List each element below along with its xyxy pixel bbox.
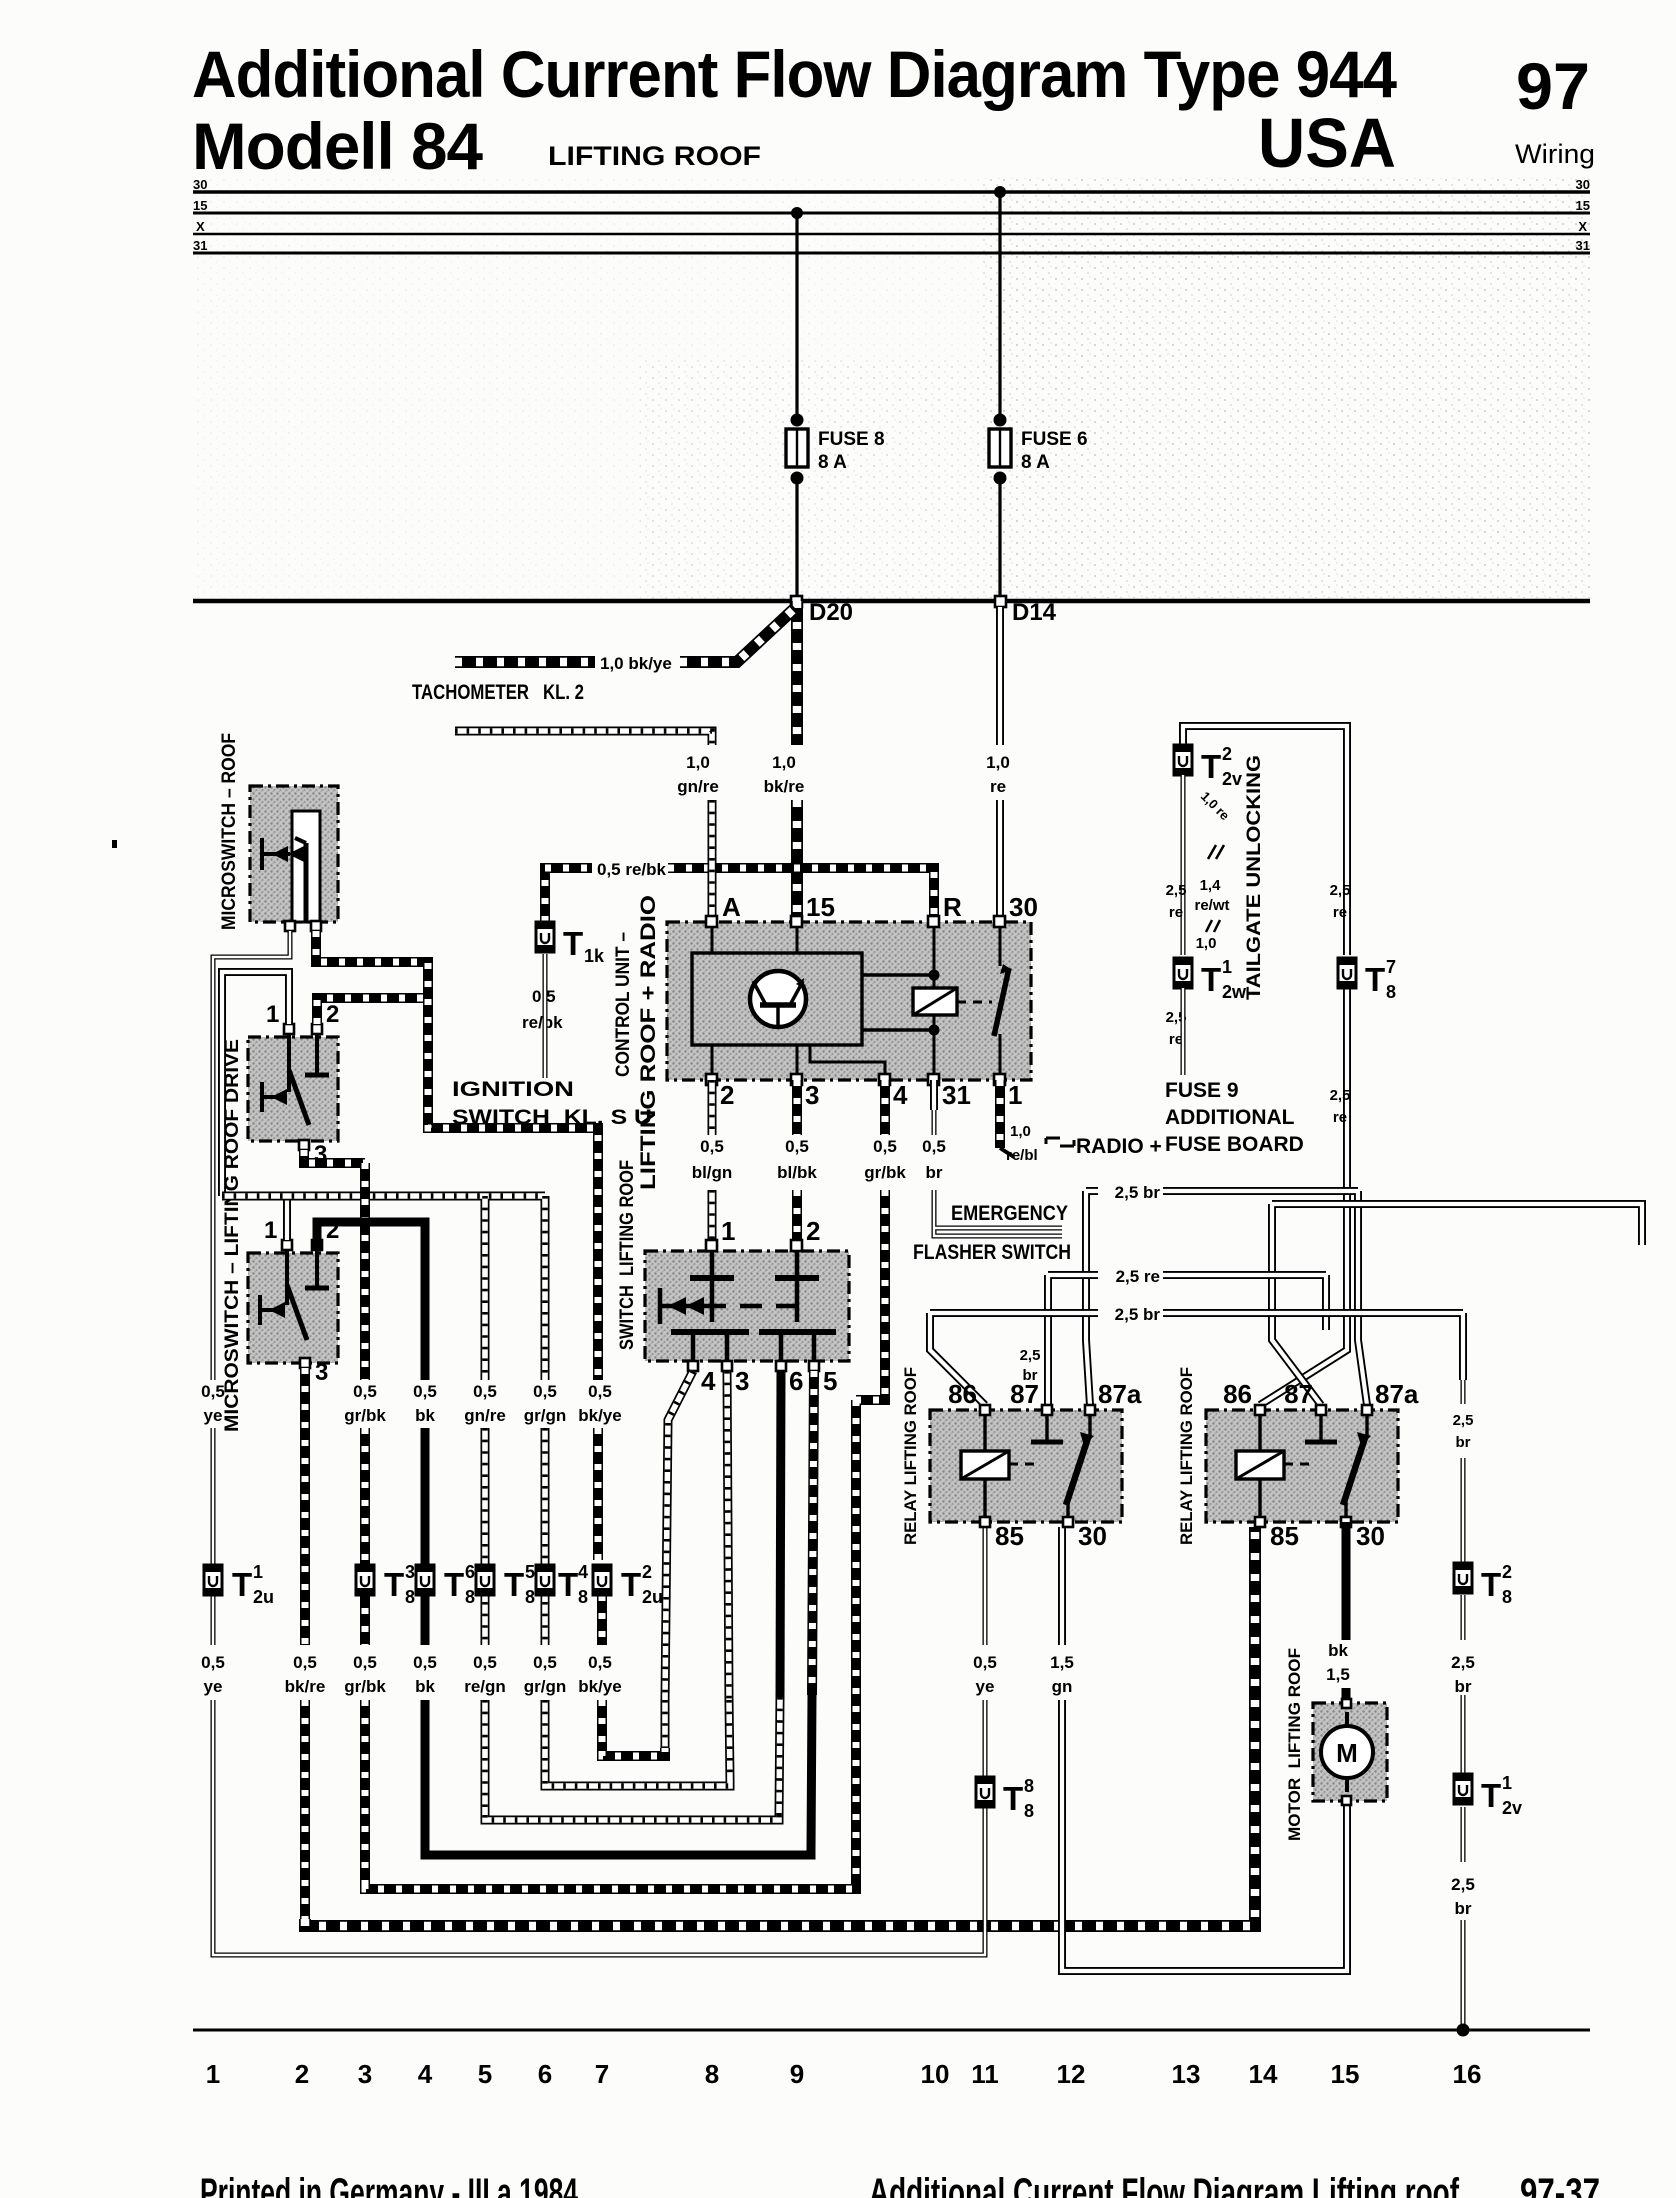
svg-text:Printed in Germany - III a 198: Printed in Germany - III a 1984: [200, 2171, 578, 2198]
svg-text:bk/ye: bk/ye: [578, 1406, 621, 1425]
svg-text:8: 8: [1502, 1587, 1512, 1607]
svg-text:1,0: 1,0: [772, 753, 796, 772]
svg-text:Wiring: Wiring: [1515, 139, 1595, 169]
svg-text:8: 8: [578, 1587, 588, 1607]
svg-text:ye: ye: [204, 1677, 223, 1696]
svg-text:2: 2: [1222, 744, 1232, 764]
svg-text:3: 3: [358, 2059, 372, 2089]
svg-text:9: 9: [790, 2059, 804, 2089]
svg-text:gr/bk: gr/bk: [344, 1406, 386, 1425]
svg-text:TAILGATE UNLOCKING: TAILGATE UNLOCKING: [1244, 755, 1265, 1000]
svg-text:MICROSWITCH – ROOF: MICROSWITCH – ROOF: [219, 733, 240, 930]
svg-text:1: 1: [1222, 957, 1232, 977]
svg-text:87: 87: [1010, 1379, 1039, 1409]
svg-text:0,5: 0,5: [201, 1382, 225, 1401]
svg-text:bl/gn: bl/gn: [692, 1163, 733, 1182]
svg-text:3: 3: [405, 1562, 415, 1582]
svg-text:re: re: [1333, 904, 1347, 921]
svg-text:15: 15: [1576, 198, 1590, 213]
svg-text:0,5: 0,5: [588, 1653, 612, 1672]
svg-text:8 A: 8 A: [1021, 452, 1050, 473]
svg-text:T: T: [504, 1566, 524, 1603]
svg-text:T: T: [1003, 1780, 1023, 1817]
svg-text:MOTOR LIFTING ROOF: MOTOR LIFTING ROOF: [1285, 1648, 1304, 1841]
svg-text:FUSE 9: FUSE 9: [1165, 1079, 1239, 1102]
svg-text:gr/gn: gr/gn: [524, 1677, 567, 1696]
svg-text:FUSE 8: FUSE 8: [818, 429, 885, 450]
svg-text:0,5: 0,5: [293, 1653, 317, 1672]
svg-text:TACHOMETER KL. 2: TACHOMETER KL. 2: [412, 681, 584, 704]
svg-text:bk/ye: bk/ye: [578, 1677, 621, 1696]
svg-text:EMERGENCY: EMERGENCY: [951, 1202, 1068, 1225]
svg-text:br: br: [1456, 1434, 1471, 1451]
svg-text:1,0: 1,0: [1196, 935, 1217, 952]
svg-text:ye: ye: [204, 1406, 223, 1425]
svg-text:T: T: [558, 1566, 578, 1603]
svg-text:T: T: [621, 1566, 641, 1603]
svg-text:4: 4: [893, 1080, 908, 1110]
svg-text:2,5: 2,5: [1330, 1087, 1351, 1104]
svg-text:re/gn: re/gn: [464, 1677, 506, 1696]
svg-text:86: 86: [948, 1379, 977, 1409]
svg-text:T: T: [563, 925, 583, 962]
svg-text:T: T: [1201, 961, 1221, 998]
svg-text:T: T: [384, 1566, 404, 1603]
svg-text:4: 4: [578, 1562, 588, 1582]
svg-text:2: 2: [642, 1562, 652, 1582]
svg-text:1,0: 1,0: [1010, 1123, 1031, 1140]
svg-text:2u: 2u: [253, 1587, 274, 1607]
svg-text:97-37: 97-37: [1520, 2171, 1600, 2198]
svg-text:1: 1: [266, 1001, 279, 1028]
svg-text:87: 87: [1284, 1379, 1313, 1409]
svg-text:5: 5: [478, 2059, 492, 2089]
svg-text:gr/bk: gr/bk: [344, 1677, 386, 1696]
svg-text:30: 30: [1009, 892, 1038, 922]
svg-text:1,5: 1,5: [1326, 1665, 1350, 1684]
svg-text:8: 8: [525, 1587, 535, 1607]
svg-text:T: T: [1481, 1777, 1501, 1814]
svg-text:30: 30: [1356, 1521, 1385, 1551]
svg-text:0,5 re/bk: 0,5 re/bk: [597, 860, 667, 879]
svg-text:15: 15: [1331, 2059, 1360, 2089]
svg-text:R: R: [943, 892, 962, 922]
svg-text:5: 5: [823, 1366, 837, 1396]
svg-text:T: T: [1365, 961, 1385, 998]
svg-text:1: 1: [1502, 1773, 1512, 1793]
svg-text:2,5: 2,5: [1451, 1653, 1475, 1672]
svg-text:T: T: [1481, 1566, 1501, 1603]
svg-text:gr/gn: gr/gn: [524, 1406, 567, 1425]
svg-text:bk: bk: [415, 1406, 435, 1425]
svg-text:br: br: [1455, 1899, 1472, 1918]
svg-text:0,5: 0,5: [473, 1653, 497, 1672]
svg-text:SWITCH LIFTING ROOF: SWITCH LIFTING ROOF: [617, 1160, 638, 1350]
svg-text:12: 12: [1057, 2059, 1086, 2089]
svg-text:X: X: [1578, 219, 1587, 234]
svg-text:gn: gn: [1052, 1677, 1073, 1696]
svg-text:4: 4: [418, 2059, 433, 2089]
svg-text:8: 8: [1386, 982, 1396, 1002]
svg-text:1,0: 1,0: [686, 753, 710, 772]
svg-text:2u: 2u: [642, 1587, 663, 1607]
svg-text:re/bl: re/bl: [1006, 1147, 1038, 1164]
svg-text:0,5: 0,5: [201, 1653, 225, 1672]
svg-text:bk: bk: [1328, 1641, 1348, 1660]
svg-text:11: 11: [971, 2059, 999, 2089]
svg-text:15: 15: [806, 892, 835, 922]
svg-text:0,5: 0,5: [873, 1137, 897, 1156]
svg-text:2v: 2v: [1222, 769, 1242, 789]
svg-text:1,0: 1,0: [986, 753, 1010, 772]
svg-text:LIFTING ROOF + RADIO: LIFTING ROOF + RADIO: [637, 895, 660, 1190]
svg-text:ye: ye: [976, 1677, 995, 1696]
svg-text:X: X: [196, 219, 205, 234]
svg-text:30: 30: [1576, 177, 1590, 192]
svg-text:97: 97: [1516, 49, 1590, 123]
svg-text:85: 85: [995, 1521, 1024, 1551]
svg-text:bl/bk: bl/bk: [777, 1163, 817, 1182]
svg-text:1: 1: [1008, 1080, 1022, 1110]
svg-text:2: 2: [720, 1080, 734, 1110]
svg-text:br: br: [926, 1163, 943, 1182]
svg-text:6: 6: [538, 2059, 552, 2089]
svg-text:30: 30: [1078, 1521, 1107, 1551]
svg-text:1,4: 1,4: [1200, 877, 1222, 894]
svg-text:15: 15: [193, 198, 207, 213]
svg-text:re: re: [1169, 904, 1183, 921]
svg-text:re: re: [990, 777, 1006, 796]
svg-text:1: 1: [264, 1217, 277, 1244]
svg-text:3: 3: [805, 1080, 819, 1110]
svg-text:87a: 87a: [1098, 1379, 1142, 1409]
svg-text:3: 3: [315, 1359, 328, 1386]
svg-text:8: 8: [405, 1587, 415, 1607]
svg-text:gn/re: gn/re: [677, 777, 719, 796]
svg-text:bk: bk: [415, 1677, 435, 1696]
svg-text:85: 85: [1270, 1521, 1299, 1551]
svg-text:FUSE BOARD: FUSE BOARD: [1165, 1133, 1304, 1156]
svg-text:10: 10: [921, 2059, 950, 2089]
svg-text:USA: USA: [1258, 104, 1396, 182]
svg-text:2,5 br: 2,5 br: [1115, 1305, 1161, 1324]
svg-text:2: 2: [806, 1216, 820, 1246]
svg-text:2w: 2w: [1222, 982, 1247, 1002]
svg-text:16: 16: [1453, 2059, 1482, 2089]
svg-text:0,5: 0,5: [413, 1653, 437, 1672]
svg-text:T: T: [232, 1566, 252, 1603]
svg-text:7: 7: [595, 2059, 609, 2089]
svg-text:8 A: 8 A: [818, 452, 847, 473]
svg-text:gr/bk: gr/bk: [864, 1163, 906, 1182]
svg-text:0,5: 0,5: [353, 1382, 377, 1401]
svg-text:6: 6: [465, 1562, 475, 1582]
svg-text:Modell 84: Modell 84: [192, 109, 483, 183]
svg-text:T: T: [1201, 748, 1221, 785]
svg-text:8: 8: [1024, 1776, 1034, 1796]
svg-text:8: 8: [705, 2059, 719, 2089]
svg-text:Additional Current Flow Diagra: Additional Current Flow Diagram Type 944: [192, 37, 1397, 111]
svg-text:87a: 87a: [1375, 1379, 1419, 1409]
svg-text:1,0 bk/ye: 1,0 bk/ye: [600, 654, 672, 673]
svg-text:1k: 1k: [584, 946, 605, 966]
svg-text:2v: 2v: [1502, 1798, 1522, 1818]
svg-text:0,5: 0,5: [413, 1382, 437, 1401]
svg-text:1: 1: [206, 2059, 220, 2089]
svg-text:LIFTING ROOF: LIFTING ROOF: [548, 141, 761, 171]
svg-text:0,5: 0,5: [588, 1382, 612, 1401]
svg-text:2,5: 2,5: [1453, 1412, 1474, 1429]
svg-text:0,5: 0,5: [353, 1653, 377, 1672]
svg-text:bk/re: bk/re: [285, 1677, 326, 1696]
svg-text:0,5: 0,5: [533, 1382, 557, 1401]
svg-text:86: 86: [1223, 1379, 1252, 1409]
svg-text:2: 2: [295, 2059, 309, 2089]
svg-text:RADIO +: RADIO +: [1076, 1135, 1162, 1158]
svg-text:31: 31: [193, 238, 207, 253]
svg-text:D20: D20: [809, 599, 853, 626]
svg-text:Additional Current Flow Diagra: Additional Current Flow Diagram Lifting …: [869, 2171, 1459, 2198]
svg-text:2,5: 2,5: [1330, 882, 1351, 899]
svg-text:0,5: 0,5: [533, 1653, 557, 1672]
svg-text:re: re: [1333, 1109, 1347, 1126]
svg-text:30: 30: [193, 177, 207, 192]
svg-text:br: br: [1455, 1677, 1472, 1696]
svg-text:2: 2: [326, 1001, 339, 1028]
svg-text:IGNITION: IGNITION: [452, 1078, 574, 1101]
svg-text:bk/re: bk/re: [764, 777, 805, 796]
svg-text:2,5: 2,5: [1451, 1875, 1475, 1894]
svg-text:2,5 re: 2,5 re: [1116, 1267, 1160, 1286]
svg-text:0,5: 0,5: [922, 1137, 946, 1156]
svg-text:0,5: 0,5: [473, 1382, 497, 1401]
svg-text:4: 4: [701, 1366, 716, 1396]
svg-text:7: 7: [1386, 957, 1396, 977]
svg-text:8: 8: [1024, 1801, 1034, 1821]
svg-text:31: 31: [942, 1080, 971, 1110]
svg-text:gn/re: gn/re: [464, 1406, 506, 1425]
svg-text:1,5: 1,5: [1050, 1653, 1074, 1672]
svg-text:6: 6: [789, 1366, 803, 1396]
svg-text:ADDITIONAL: ADDITIONAL: [1165, 1106, 1295, 1129]
svg-text:0,5: 0,5: [973, 1653, 997, 1672]
svg-text:3: 3: [735, 1366, 749, 1396]
svg-text:0,5: 0,5: [700, 1137, 724, 1156]
svg-text:2,5 br: 2,5 br: [1115, 1183, 1161, 1202]
svg-text:M: M: [1336, 1738, 1358, 1768]
svg-text:FLASHER SWITCH: FLASHER SWITCH: [913, 1241, 1071, 1264]
svg-text:2,5: 2,5: [1020, 1347, 1041, 1364]
svg-text:T: T: [444, 1566, 464, 1603]
svg-text:re/wt: re/wt: [1194, 897, 1229, 914]
svg-text:RELAY LIFTING ROOF: RELAY LIFTING ROOF: [1177, 1367, 1196, 1545]
svg-text:CONTROL UNIT –: CONTROL UNIT –: [613, 932, 634, 1077]
svg-text:13: 13: [1172, 2059, 1201, 2089]
svg-text:1: 1: [253, 1562, 263, 1582]
svg-text:5: 5: [525, 1562, 535, 1582]
svg-text:A: A: [722, 892, 741, 922]
svg-text:1: 1: [721, 1216, 735, 1246]
svg-text:14: 14: [1249, 2059, 1278, 2089]
svg-text:RELAY LIFTING ROOF: RELAY LIFTING ROOF: [901, 1367, 920, 1545]
svg-text:2,5: 2,5: [1166, 882, 1187, 899]
svg-text:8: 8: [465, 1587, 475, 1607]
svg-text:0,5: 0,5: [785, 1137, 809, 1156]
svg-text:D14: D14: [1012, 599, 1057, 626]
svg-text:31: 31: [1576, 238, 1590, 253]
svg-text:FUSE 6: FUSE 6: [1021, 429, 1088, 450]
svg-text:2: 2: [1502, 1562, 1512, 1582]
